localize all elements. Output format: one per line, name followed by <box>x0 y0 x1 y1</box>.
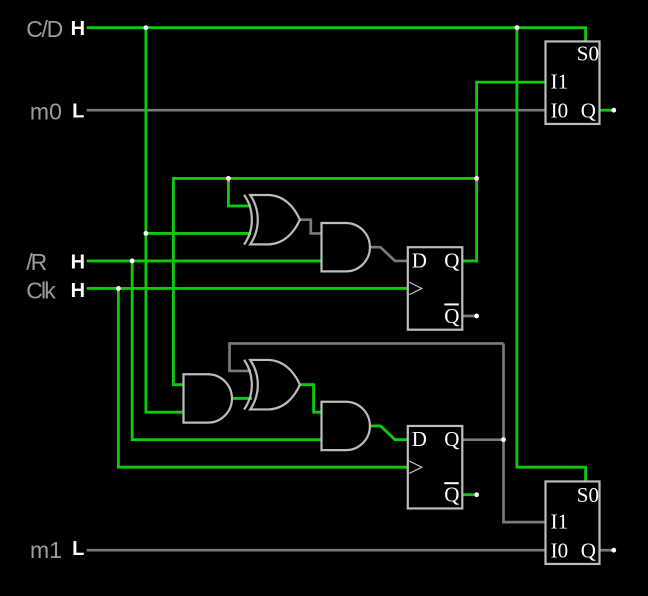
svg-text:S0: S0 <box>577 42 599 66</box>
svg-text:I0: I0 <box>551 538 569 562</box>
svg-text:D: D <box>412 248 427 272</box>
svg-text:L: L <box>72 100 84 122</box>
svg-text:Q: Q <box>444 304 459 328</box>
svg-text:C/D: C/D <box>26 16 63 42</box>
svg-text:H: H <box>71 280 85 302</box>
svg-text:Q: Q <box>581 538 596 562</box>
svg-text:/R: /R <box>26 249 47 275</box>
svg-text:m0: m0 <box>30 99 62 125</box>
svg-text:Q: Q <box>444 248 459 272</box>
svg-text:m1: m1 <box>30 537 62 563</box>
svg-text:S0: S0 <box>577 483 599 507</box>
svg-text:I1: I1 <box>551 70 569 94</box>
svg-text:H: H <box>71 18 85 40</box>
svg-text:D: D <box>412 427 427 451</box>
svg-text:Q: Q <box>444 427 459 451</box>
svg-text:I1: I1 <box>551 510 569 534</box>
svg-text:Clk: Clk <box>26 277 56 303</box>
svg-text:Q: Q <box>444 483 459 507</box>
svg-text:Q: Q <box>581 98 596 122</box>
svg-text:L: L <box>72 538 84 560</box>
svg-text:I0: I0 <box>551 98 569 122</box>
svg-text:H: H <box>71 252 85 274</box>
